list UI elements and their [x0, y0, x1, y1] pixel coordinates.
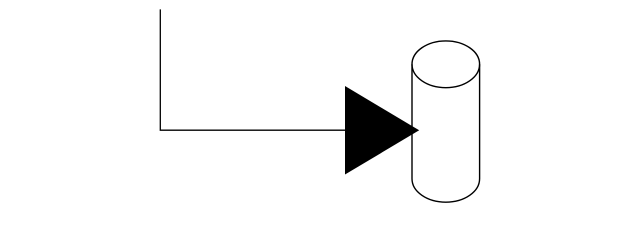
arrowhead (solid black triangle pointing right): [345, 86, 419, 175]
cylinder body (database/disk symbol sides and bottom arc): [412, 64, 480, 202]
cylinder top ellipse: [412, 41, 480, 88]
wire elbow connector (vertical then horizontal segment): [160, 9, 345, 130]
